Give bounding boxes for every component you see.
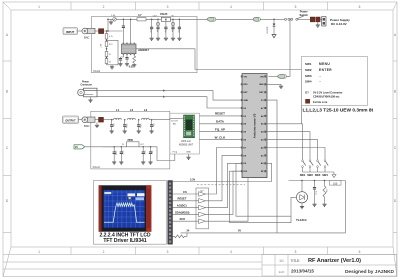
svg-text:MENU: MENU — [319, 62, 330, 66]
capacitor 47p (LPF) — [150, 119, 154, 131]
connector pair (battery plug) — [285, 18, 291, 20]
regulator 78L05 — [153, 12, 174, 21]
ferrite core FB2 — [310, 17, 315, 22]
inductor L1 — [114, 108, 122, 120]
cap at U1 pin 1 — [119, 55, 124, 64]
svg-text:6: 6 — [359, 250, 361, 254]
svg-text:L1,L2,L3 T25-10 UEW 0.3mm 8t: L1,L2,L3 T25-10 UEW 0.3mm 8t — [303, 108, 374, 114]
svg-text:6: 6 — [359, 5, 361, 9]
svg-text:L1: L1 — [116, 108, 120, 112]
wire 5V down right side — [266, 100, 277, 233]
svg-text:4: 4 — [230, 250, 232, 254]
svg-text:SDA(MOSI): SDA(MOSI) — [175, 210, 189, 214]
LCD photo — [99, 185, 152, 231]
wire — [85, 146, 127, 148]
svg-text:SCK: SCK — [180, 217, 186, 221]
svg-text:SW1: SW1 — [305, 62, 312, 66]
wire — [79, 119, 83, 121]
ground (trimmer) — [109, 22, 113, 24]
wire TL431 ref feedback — [236, 163, 296, 216]
capacitor 10µ bypass — [156, 19, 160, 38]
inductor 4.7 on +rail — [137, 13, 146, 21]
DC power connector J2 — [320, 17, 326, 27]
resistor (LCD backlight) — [173, 233, 188, 238]
svg-text:RESET: RESET — [178, 197, 187, 201]
ground — [141, 162, 145, 164]
capacitor 0.1µ (7805) — [142, 146, 146, 162]
wire LCD SCK — [173, 217, 199, 221]
shunt regulator TL431C — [296, 192, 307, 207]
ground (U3 GND pin) — [266, 84, 283, 88]
svg-text:Ferrite core: Ferrite core — [313, 100, 328, 104]
svg-text:SW3: SW3 — [305, 74, 312, 78]
svg-text:7805: 7805 — [127, 138, 133, 142]
wire VIN feed — [288, 19, 290, 76]
ground (power connector) — [88, 97, 92, 102]
svg-text:2: 2 — [103, 250, 105, 254]
svg-text:FQ_UP: FQ_UP — [215, 128, 225, 132]
wire — [206, 163, 241, 207]
svg-text:9V: 9V — [75, 146, 78, 149]
svg-text:W_CLK: W_CLK — [215, 135, 226, 139]
wire — [206, 155, 241, 200]
shield box (input detector) — [92, 17, 198, 73]
DDS green PCB — [184, 115, 195, 138]
wire sense — [230, 171, 292, 223]
ground — [150, 38, 154, 40]
wire — [218, 18, 251, 20]
ground — [164, 38, 168, 40]
OUTPUT label — [63, 116, 79, 123]
ground — [148, 162, 152, 164]
op-amp U1 AD8307 — [122, 43, 136, 56]
node OUT wire to MCU — [136, 49, 302, 124]
ground — [123, 131, 127, 133]
ground — [171, 38, 175, 40]
wire — [78, 30, 83, 32]
cap at U1 pin 2 — [125, 55, 128, 64]
ground (diode) — [272, 35, 276, 38]
svg-text:TITLE:: TITLE: — [291, 259, 301, 263]
switch SW3 — [266, 140, 321, 178]
svg-text:ENTER: ENTER — [319, 68, 332, 72]
wire — [104, 119, 114, 121]
ferrite bead L6 (VIN) — [276, 74, 289, 78]
microcontroller U3 Arduino nano V3 — [241, 74, 267, 178]
wire — [170, 18, 207, 20]
ground — [137, 131, 141, 133]
ground — [132, 65, 136, 67]
wire net b — [97, 96, 241, 109]
svg-text:78L05: 78L05 — [160, 12, 168, 16]
ferrite core on output wire — [99, 117, 104, 122]
wire — [146, 18, 157, 20]
svg-text:SW2: SW2 — [307, 173, 313, 177]
ground (TL431) — [300, 207, 304, 209]
svg-text:--: -- — [319, 75, 321, 78]
ground — [125, 64, 129, 66]
capacitor 100µ (7805) — [113, 146, 117, 162]
wire — [206, 148, 241, 195]
svg-text:(R): (R) — [173, 124, 176, 126]
svg-text:B: B — [6, 89, 8, 93]
LCD pin header CN1 — [168, 181, 173, 245]
svg-text:Freq: Freq — [173, 150, 178, 153]
svg-text:L3: L3 — [144, 108, 148, 112]
svg-text:BNC: BNC — [84, 35, 90, 39]
coupling caps into U1 — [122, 19, 132, 44]
wire DDS RF out into box — [170, 118, 184, 120]
svg-text:4: 4 — [230, 5, 232, 9]
svg-text:2013/04/15: 2013/04/15 — [291, 269, 314, 274]
resistor at U1 output — [133, 55, 136, 65]
svg-text:GND: GND — [259, 84, 264, 86]
wire — [206, 178, 249, 222]
ferrite bead L4 — [205, 17, 218, 21]
wire RESET — [199, 112, 240, 116]
svg-text:G?: G? — [305, 91, 309, 95]
svg-text:1: 1 — [38, 5, 40, 9]
svg-text:B: B — [394, 89, 396, 93]
wire — [149, 119, 151, 121]
svg-text:DDS unit: DDS unit — [181, 140, 191, 143]
wire ref rail — [289, 180, 346, 182]
svg-text:RF Anarizer (Ver1.0): RF Anarizer (Ver1.0) — [308, 258, 361, 264]
ground (power entry) — [316, 22, 320, 27]
wire LCD RESET — [173, 197, 199, 201]
wire DATA — [199, 120, 240, 124]
regulator 7805 U4 — [122, 138, 145, 147]
inductor L2 — [128, 108, 136, 120]
net label 9V flag — [74, 145, 85, 149]
svg-text:AO(DC): AO(DC) — [177, 204, 187, 208]
svg-text:--: -- — [319, 81, 321, 84]
level converter G? — [196, 188, 209, 229]
svg-text:3: 3 — [167, 5, 169, 9]
svg-text:4.7k: 4.7k — [109, 36, 113, 38]
svg-text:5: 5 — [295, 5, 297, 9]
svg-text:10k: 10k — [325, 189, 327, 192]
svg-text:Shield: Shield — [93, 165, 101, 169]
wire (dashed boundary) — [197, 184, 245, 186]
power switch SW5 — [291, 16, 311, 20]
ferrite bead L5 — [251, 17, 263, 21]
ground — [119, 162, 123, 164]
svg-text:RESET: RESET — [215, 112, 225, 116]
svg-text:Shield: Shield — [93, 69, 101, 73]
capacitor 47µ (7805) — [149, 146, 153, 162]
wire LCD AO(DC) — [173, 204, 199, 208]
wire W_CLK — [199, 135, 240, 139]
svg-text:5V: 5V — [238, 230, 241, 233]
svg-text:SW3: SW3 — [315, 173, 321, 177]
switch SW2 — [266, 132, 313, 178]
svg-text:2: 2 — [103, 5, 105, 9]
svg-text:1: 1 — [38, 250, 40, 254]
title block — [262, 255, 397, 277]
capacitor 47p (LPF) — [110, 119, 114, 131]
ground — [312, 204, 316, 206]
notes box — [302, 56, 368, 105]
svg-text:1/1: 1/1 — [279, 259, 284, 263]
svg-text:TL431C: TL431C — [296, 218, 308, 222]
svg-text:GND: GND — [186, 151, 191, 153]
ground — [322, 204, 326, 206]
svg-text:Arduino nano V3: Arduino nano V3 — [253, 113, 257, 138]
wire — [301, 181, 303, 192]
wire — [104, 30, 123, 32]
switch SW1 — [266, 124, 306, 177]
ground (DDS) — [186, 154, 190, 159]
svg-text:4.7: 4.7 — [138, 13, 142, 17]
trimmer capacitor 1.05 — [107, 15, 137, 32]
svg-text:DC 9-12.0V: DC 9-12.0V — [331, 22, 347, 26]
wire 5V bottom rail — [181, 230, 346, 233]
ground — [156, 38, 160, 40]
svg-text:SW1: SW1 — [300, 173, 306, 177]
svg-text:5V-3.3V Level Converter: 5V-3.3V Level Converter — [313, 91, 343, 95]
diode D1 (reverse protection) — [266, 19, 276, 34]
svg-text:Designed by JA2NKD: Designed by JA2NKD — [345, 269, 395, 275]
wire — [139, 147, 175, 161]
svg-text:VIN: VIN — [260, 76, 264, 78]
svg-text:INPUT: INPUT — [66, 30, 75, 34]
svg-text:SW4: SW4 — [305, 80, 312, 84]
BNC connector J1 — [82, 28, 99, 34]
svg-text:Power: Power — [82, 82, 89, 84]
capacitor 0.1µ bypass — [164, 19, 168, 38]
resistor 100 — [330, 181, 342, 186]
shield box (output LPF) — [91, 111, 170, 169]
capacitor 0.1µ (7805) — [120, 146, 124, 162]
svg-text:Connector: Connector — [81, 84, 93, 87]
BNC connector J3 — [82, 117, 99, 123]
svg-text:SW2: SW2 — [305, 68, 312, 72]
svg-text:AD9850 UNIT: AD9850 UNIT — [179, 143, 194, 146]
wire FQ_UP — [199, 128, 240, 132]
ferrite core legend swatch — [306, 99, 310, 103]
svg-text:CD4050,FXMA108 etc: CD4050,FXMA108 etc — [313, 94, 340, 98]
wire — [263, 18, 285, 20]
svg-text:Switch: Switch — [300, 13, 309, 17]
wire switch common — [303, 171, 335, 173]
svg-text:OUTPUT: OUTPUT — [65, 119, 76, 122]
ferrite core on input wire — [99, 29, 104, 34]
LCD module box — [94, 181, 167, 245]
switch SW4 — [266, 148, 328, 178]
svg-text:5: 5 — [295, 250, 297, 254]
svg-text:GND: GND — [243, 100, 248, 102]
DDS module box — [170, 113, 200, 154]
ground — [150, 131, 154, 133]
ferrite core FB3 — [316, 17, 321, 22]
svg-text:0.01: 0.01 — [129, 66, 134, 69]
wire LCD CS — [173, 190, 199, 194]
ground — [177, 38, 181, 40]
svg-text:3.3V: 3.3V — [190, 178, 195, 181]
svg-text:Inch: Inch — [279, 270, 285, 274]
svg-text:RST: RST — [259, 92, 264, 94]
capacitor 10µ bypass — [171, 19, 175, 38]
svg-text:RST: RST — [243, 92, 248, 94]
capacitor 0.1µ bypass — [177, 19, 181, 38]
svg-text:TFT Driver ILI9341: TFT Driver ILI9341 — [103, 238, 147, 244]
ground (output BNC) — [95, 122, 99, 127]
svg-text:8-OUT: 8-OUT — [171, 120, 178, 122]
power connector P1 — [78, 82, 97, 97]
attenuator ladder resistors — [99, 31, 118, 67]
wire 3.3V rail — [173, 163, 272, 181]
inductor L3 — [142, 108, 150, 120]
ground (attenuator) — [110, 67, 114, 69]
wire — [206, 171, 241, 214]
INPUT label — [63, 28, 78, 35]
ground (switch common) — [332, 172, 336, 178]
ground — [112, 162, 116, 164]
wire LCD SDA(MOSI) — [173, 210, 199, 214]
capacitor 100p (LPF) — [137, 119, 141, 131]
ground — [110, 131, 114, 133]
svg-text:BNC: BNC — [84, 124, 90, 128]
resistor 10k — [323, 180, 327, 204]
svg-text:1N4002: 1N4002 — [266, 27, 268, 35]
wire net a — [97, 89, 241, 100]
capacitor 100p (LPF) — [123, 119, 127, 131]
svg-text:100: 100 — [333, 182, 338, 185]
capacitor 0.1µ bypass — [150, 19, 154, 38]
svg-text:CS: CS — [183, 190, 187, 194]
ground — [118, 64, 122, 66]
wire — [269, 75, 276, 77]
svg-text:DATA: DATA — [216, 120, 225, 124]
svg-text:SW4: SW4 — [322, 173, 328, 177]
svg-text:L2: L2 — [130, 108, 134, 112]
capacitor 0.01 (TL431) — [313, 180, 317, 204]
svg-text:3: 3 — [167, 250, 169, 254]
